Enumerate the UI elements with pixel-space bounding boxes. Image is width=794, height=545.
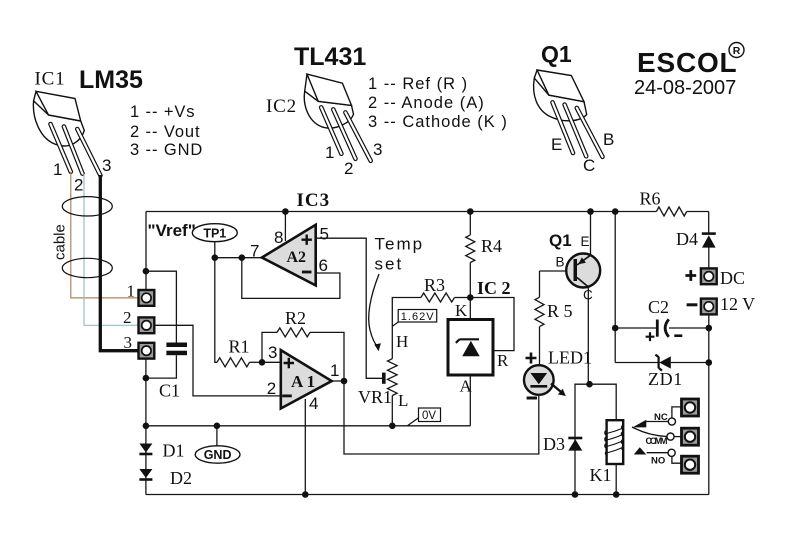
relay contact NC bbox=[646, 421, 669, 423]
callout 0V bbox=[407, 418, 419, 426]
svg-text:2: 2 bbox=[123, 308, 132, 327]
svg-text:1.62V: 1.62V bbox=[401, 311, 435, 323]
wire COMM circle to pad bbox=[674, 436, 681, 438]
wire TP1 node down to R1 bbox=[215, 242, 217, 363]
A2 pin numbers bbox=[250, 225, 329, 276]
resistor R5 bbox=[535, 297, 544, 326]
svg-text:C2: C2 bbox=[648, 297, 669, 317]
svg-text:1: 1 bbox=[127, 282, 136, 301]
LED1 bbox=[524, 365, 554, 395]
wire Vout (blue) from LM35 pin2 to terminal 2 bbox=[84, 174, 138, 325]
LM35 pin numbers bbox=[53, 156, 111, 195]
svg-text:K1: K1 bbox=[590, 465, 612, 485]
cable loop ellipse 1 bbox=[62, 197, 112, 216]
transistor Q1 package bbox=[534, 70, 603, 157]
svg-text:3: 3 bbox=[124, 333, 133, 352]
capacitor C2 (electrolytic) bbox=[656, 320, 659, 337]
LM35 pin list bbox=[130, 103, 203, 159]
resistor R6 bbox=[656, 207, 686, 216]
wire C1 bottom lead bbox=[146, 355, 177, 378]
wire D4 to +DC terminal bbox=[708, 248, 710, 269]
wire right vertical -12V to bottom rail bbox=[708, 315, 710, 495]
wire +12V top rail bbox=[146, 211, 709, 213]
cable loop ellipse 2 bbox=[62, 258, 112, 277]
wire R3 left lead to VR1 top bbox=[392, 298, 421, 359]
svg-text:0V: 0V bbox=[422, 410, 436, 422]
svg-text:IC3: IC3 bbox=[297, 190, 331, 211]
terminal DC + bbox=[701, 268, 717, 284]
wire rail corner down to D4 bbox=[708, 212, 710, 234]
svg-text:D1: D1 bbox=[163, 441, 185, 461]
svg-text:8: 8 bbox=[274, 228, 283, 247]
svg-text:K: K bbox=[455, 301, 468, 320]
relay terminal pad NC bbox=[682, 399, 699, 416]
diode D3 (flyback) bbox=[568, 437, 582, 440]
wire VR1 bottom to 0V rail bbox=[391, 396, 393, 426]
zener diode ZD1 bbox=[655, 355, 662, 371]
svg-text:B: B bbox=[556, 255, 565, 270]
shunt regulator IC2 box bbox=[448, 320, 493, 376]
svg-text:Q1: Q1 bbox=[541, 41, 572, 67]
svg-text:COMM: COMM bbox=[646, 436, 668, 446]
svg-text:2 -- Anode (A): 2 -- Anode (A) bbox=[368, 94, 485, 112]
wire A2 pin5 to VR1 wiper bbox=[316, 238, 382, 378]
wire GND (black thick) from LM35 pin3 to terminal 3 bbox=[100, 175, 138, 351]
potentiometer VR1 bbox=[388, 359, 398, 396]
wire A1 output down and right to LED1 cathode bbox=[344, 381, 539, 454]
transistor Q1 (circuit) bbox=[566, 254, 600, 288]
svg-text:NC: NC bbox=[654, 412, 668, 423]
test point TP1 bbox=[192, 224, 237, 242]
svg-text:A: A bbox=[460, 377, 473, 396]
svg-text:IC2: IC2 bbox=[266, 96, 297, 117]
junction dots bbox=[282, 208, 289, 215]
svg-text:GND: GND bbox=[204, 448, 232, 462]
relay terminal pad NO bbox=[682, 456, 699, 473]
svg-text:Temp: Temp bbox=[375, 235, 425, 254]
svg-text:D3: D3 bbox=[543, 434, 565, 454]
svg-text:R: R bbox=[733, 45, 741, 57]
svg-text:1: 1 bbox=[330, 361, 339, 380]
wire +Vs (brown) from LM35 pin1 to terminal 1 bbox=[71, 172, 138, 298]
wire IC2 anode to 0V rail bbox=[469, 375, 471, 426]
svg-text:C1: C1 bbox=[159, 381, 180, 401]
svg-text:2: 2 bbox=[74, 176, 83, 195]
wire collector node to D3 bbox=[575, 384, 590, 494]
svg-text:"Vref": "Vref" bbox=[148, 221, 196, 240]
svg-text:2 -- Vout: 2 -- Vout bbox=[130, 123, 200, 141]
wire A2 pin6 feedback to pin7 node bbox=[242, 258, 340, 299]
wire Q1 collector down bbox=[587, 287, 589, 384]
wire A2 pin8 supply from rail bbox=[284, 212, 286, 242]
relay contact blade (COMM) bbox=[632, 427, 667, 437]
wire Vout terminal2 to A1 pin2 bbox=[155, 325, 281, 396]
svg-text:NO: NO bbox=[651, 455, 665, 466]
svg-text:1: 1 bbox=[325, 143, 334, 162]
svg-text:6: 6 bbox=[319, 256, 328, 275]
svg-text:1 -- +Vs: 1 -- +Vs bbox=[130, 103, 195, 121]
Q1 package pin letters bbox=[551, 130, 614, 175]
wire NO circle to pad bbox=[672, 456, 681, 463]
capacitor C1 bbox=[166, 343, 187, 348]
wire left drop from rail to terminal 1 bbox=[145, 212, 147, 290]
wire collector node to K1 bbox=[590, 384, 617, 420]
wire A2 pin7 output bbox=[215, 257, 262, 259]
svg-text:3: 3 bbox=[373, 140, 382, 159]
svg-text:C: C bbox=[583, 288, 593, 303]
svg-text:VR1: VR1 bbox=[358, 387, 392, 407]
svg-text:3 -- GND: 3 -- GND bbox=[130, 141, 203, 159]
svg-text:IC 2: IC 2 bbox=[477, 278, 511, 298]
diode D1 bbox=[139, 444, 152, 453]
svg-text:E: E bbox=[551, 135, 562, 154]
svg-text:1 -- Ref (R ): 1 -- Ref (R ) bbox=[368, 75, 468, 93]
wire A1 output to node bbox=[332, 380, 344, 382]
svg-text:set: set bbox=[375, 255, 404, 274]
sensor IC1 (LM35) package bbox=[33, 91, 100, 175]
wire R2 left lead bbox=[262, 332, 277, 362]
svg-text:E: E bbox=[581, 234, 590, 249]
svg-text:cable: cable bbox=[52, 224, 69, 260]
svg-text:LED1: LED1 bbox=[548, 348, 592, 368]
wire C2/ZD1 branch vertical from rail bbox=[614, 212, 616, 363]
svg-text:3: 3 bbox=[102, 156, 111, 175]
svg-text:2: 2 bbox=[344, 159, 353, 178]
wire R1 to pin3 node bbox=[250, 361, 263, 363]
svg-text:A2: A2 bbox=[287, 249, 307, 266]
terminal 1 bbox=[139, 290, 155, 306]
svg-text:D2: D2 bbox=[170, 468, 192, 488]
svg-text:B: B bbox=[603, 130, 614, 149]
TL431 pin list bbox=[368, 75, 508, 131]
svg-text:R2: R2 bbox=[285, 308, 306, 328]
svg-text:ZD1: ZD1 bbox=[648, 369, 683, 389]
svg-text:TL431: TL431 bbox=[294, 43, 366, 71]
svg-text:R4: R4 bbox=[481, 236, 502, 256]
wire branch to C1 top bbox=[146, 271, 177, 342]
wire R3 right lead bbox=[455, 297, 471, 299]
svg-text:3 -- Cathode (K ): 3 -- Cathode (K ) bbox=[368, 113, 508, 131]
terminal 3 bbox=[139, 343, 155, 359]
svg-text:LM35: LM35 bbox=[79, 66, 143, 94]
A1 pin numbers bbox=[267, 343, 340, 413]
svg-text:L: L bbox=[398, 391, 408, 410]
wire Q1 base bbox=[540, 270, 574, 272]
relay terminal pad COMM bbox=[682, 428, 699, 445]
svg-text:TP1: TP1 bbox=[203, 226, 226, 240]
svg-text:D4: D4 bbox=[676, 229, 698, 249]
svg-text:12 V: 12 V bbox=[720, 294, 755, 314]
relay coil K1 bbox=[607, 420, 624, 464]
wire A1 pin4 to bottom rail bbox=[304, 399, 306, 495]
svg-text:Q1: Q1 bbox=[549, 231, 572, 250]
ground symbol GND bbox=[216, 426, 218, 446]
wire bottom rail bbox=[146, 494, 709, 496]
wire NC circle to pad bbox=[672, 407, 681, 418]
wire A1 pin3 input bbox=[262, 361, 281, 363]
op-amp A2 bbox=[262, 225, 316, 286]
wire R5 top lead bbox=[539, 271, 541, 297]
terminal DC - (12V) bbox=[701, 299, 717, 315]
wire C2 leads bbox=[615, 327, 709, 329]
wire IC2 ref feedback bbox=[470, 298, 514, 351]
diode D4 bbox=[702, 232, 716, 235]
terminal 2 bbox=[139, 317, 155, 333]
wire R4 top lead from rail bbox=[469, 212, 471, 235]
svg-text:1: 1 bbox=[53, 160, 62, 179]
svg-text:A 1: A 1 bbox=[291, 372, 315, 391]
reference IC2 (TL431) package bbox=[304, 74, 370, 161]
svg-text:R 5: R 5 bbox=[547, 301, 573, 321]
svg-text:3: 3 bbox=[268, 343, 277, 362]
resistor R1 bbox=[217, 358, 250, 367]
svg-text:DC: DC bbox=[720, 268, 745, 288]
svg-text:R3: R3 bbox=[424, 275, 445, 295]
wire 0V rail bbox=[146, 425, 470, 427]
contact pivot circles bbox=[668, 418, 675, 425]
wire terminal3 down through D1 D2 to bottom rail bbox=[145, 359, 147, 495]
callout 1.62V bbox=[392, 322, 399, 327]
svg-text:IC1: IC1 bbox=[35, 69, 66, 90]
wire R4 bottom to K node and IC2 cathode bbox=[469, 263, 471, 340]
svg-text:2: 2 bbox=[267, 379, 276, 398]
svg-text:4: 4 bbox=[309, 394, 318, 413]
svg-text:24-08-2007: 24-08-2007 bbox=[634, 77, 736, 99]
svg-text:C: C bbox=[583, 156, 595, 175]
wire R5 to LED1 anode bbox=[539, 327, 541, 367]
wire K1 bottom to rail bbox=[615, 464, 617, 494]
svg-text:R6: R6 bbox=[640, 189, 661, 209]
relay contact NO bbox=[634, 447, 646, 454]
svg-text:R1: R1 bbox=[229, 337, 250, 357]
resistor R2 bbox=[277, 328, 310, 337]
svg-text:H: H bbox=[396, 332, 408, 351]
svg-text:7: 7 bbox=[250, 242, 259, 261]
svg-text:R: R bbox=[497, 351, 509, 370]
svg-text:ESCOL: ESCOL bbox=[637, 47, 737, 78]
resistor R4 bbox=[466, 235, 475, 263]
TL431 pin numbers bbox=[325, 140, 382, 178]
wire Q1 emitter to rail bbox=[590, 212, 592, 256]
svg-text:5: 5 bbox=[320, 225, 329, 244]
wire R2 right lead to A1 output bbox=[310, 332, 344, 381]
op-amp A1 bbox=[281, 350, 332, 408]
registered mark bbox=[729, 43, 744, 58]
wire ZD1 leads bbox=[615, 362, 709, 364]
wire IC2 anode inside box bbox=[469, 356, 471, 375]
resistor R3 bbox=[421, 293, 455, 302]
diode D2 bbox=[139, 469, 152, 478]
